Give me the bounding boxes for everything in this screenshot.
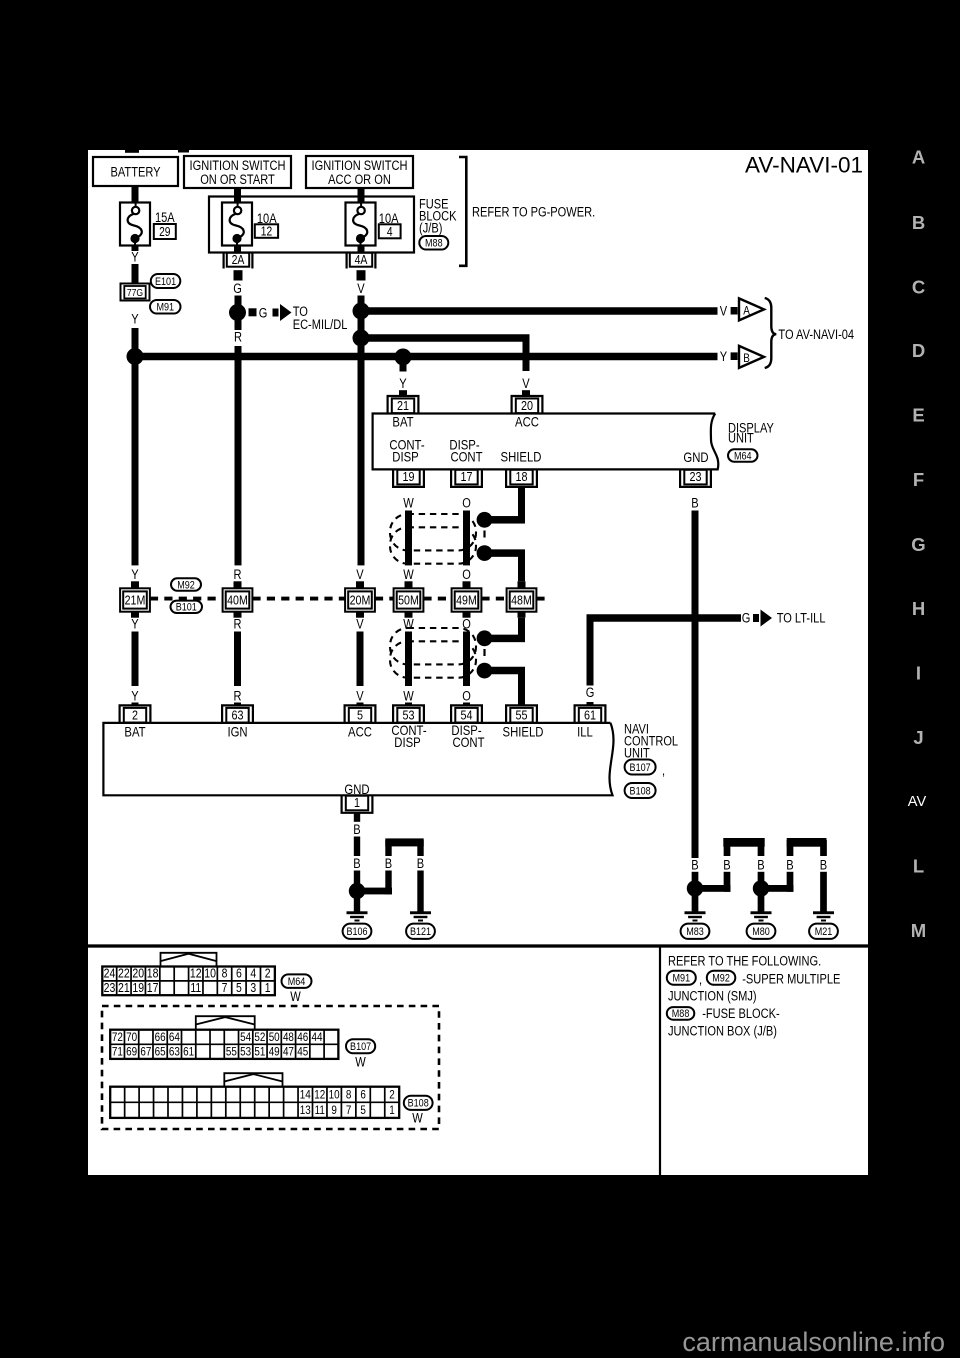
- svg-text:21: 21: [118, 980, 130, 995]
- svg-text:AV: AV: [908, 794, 927, 810]
- svg-text:M21: M21: [815, 926, 833, 938]
- svg-text:J: J: [913, 727, 923, 748]
- svg-text:M92: M92: [177, 579, 195, 591]
- svg-text:63: 63: [169, 1045, 180, 1059]
- svg-text:-FUSE BLOCK-: -FUSE BLOCK-: [702, 1006, 780, 1021]
- svg-text:Y: Y: [720, 349, 727, 364]
- svg-text:B: B: [786, 858, 793, 873]
- svg-text:B: B: [723, 858, 730, 873]
- svg-text:TO LT-ILL: TO LT-ILL: [777, 611, 826, 626]
- svg-text:5: 5: [357, 707, 363, 722]
- svg-text:B: B: [385, 856, 392, 871]
- svg-text:M64: M64: [288, 976, 306, 988]
- svg-text:O: O: [462, 689, 471, 704]
- svg-text:20: 20: [521, 398, 533, 413]
- svg-text:O: O: [462, 496, 471, 511]
- svg-text:6: 6: [236, 966, 242, 981]
- svg-text:G: G: [742, 611, 751, 626]
- svg-text:61: 61: [183, 1045, 194, 1059]
- svg-text:2: 2: [132, 707, 138, 722]
- svg-text:72: 72: [112, 1030, 123, 1044]
- svg-text:M92: M92: [712, 973, 730, 985]
- svg-text:B: B: [417, 856, 424, 871]
- svg-text:L: L: [913, 856, 924, 877]
- svg-text:18: 18: [516, 469, 528, 484]
- svg-text:AV-NAVI-01: AV-NAVI-01: [745, 153, 863, 178]
- svg-text:G: G: [911, 534, 925, 555]
- svg-text:B101: B101: [176, 602, 197, 614]
- svg-text:D: D: [912, 340, 925, 361]
- svg-text:B: B: [820, 858, 827, 873]
- svg-text:10: 10: [204, 966, 216, 981]
- svg-text:M80: M80: [752, 926, 770, 938]
- svg-text:B106: B106: [346, 926, 367, 938]
- svg-text:IGNITION SWITCH: IGNITION SWITCH: [190, 158, 286, 173]
- svg-text:71: 71: [112, 1045, 123, 1059]
- svg-text:63: 63: [232, 707, 244, 722]
- svg-text:DISP: DISP: [392, 450, 418, 465]
- svg-text:R: R: [234, 567, 242, 582]
- svg-text:52: 52: [254, 1030, 265, 1044]
- svg-text:I: I: [916, 663, 921, 684]
- svg-text:W: W: [403, 689, 414, 704]
- svg-text:UNIT: UNIT: [624, 746, 650, 761]
- svg-text:B: B: [757, 858, 764, 873]
- svg-text:51: 51: [254, 1045, 265, 1059]
- svg-text:ON OR START: ON OR START: [200, 172, 275, 187]
- svg-text:44: 44: [311, 1030, 322, 1044]
- svg-text:W: W: [403, 617, 414, 632]
- svg-text:V: V: [357, 281, 364, 296]
- svg-text:DISP: DISP: [394, 735, 420, 750]
- svg-text:,: ,: [699, 972, 702, 987]
- svg-text:23: 23: [104, 980, 116, 995]
- svg-text:UNIT: UNIT: [728, 431, 754, 446]
- svg-text:BATTERY: BATTERY: [111, 165, 161, 180]
- svg-text:R: R: [234, 330, 242, 345]
- svg-text:4A: 4A: [355, 252, 368, 267]
- svg-text:W: W: [355, 1055, 366, 1070]
- svg-text:67: 67: [140, 1045, 151, 1059]
- svg-text:1: 1: [354, 795, 360, 810]
- svg-text:2A: 2A: [232, 252, 245, 267]
- svg-text:W: W: [403, 567, 414, 582]
- svg-text:12: 12: [261, 225, 272, 239]
- svg-text:V: V: [522, 376, 529, 391]
- svg-text:W: W: [290, 989, 301, 1004]
- svg-text:M91: M91: [673, 973, 691, 985]
- svg-text:V: V: [356, 617, 363, 632]
- svg-text:12: 12: [190, 966, 202, 981]
- svg-text:70: 70: [126, 1030, 137, 1044]
- svg-text:46: 46: [297, 1030, 308, 1044]
- svg-text:77G: 77G: [127, 287, 143, 299]
- svg-text:JUNCTION (SMJ): JUNCTION (SMJ): [668, 989, 757, 1004]
- svg-text:R: R: [234, 617, 242, 632]
- svg-text:REFER TO PG-POWER.: REFER TO PG-POWER.: [472, 205, 595, 220]
- svg-text:CONT: CONT: [450, 450, 483, 465]
- svg-text:53: 53: [240, 1045, 251, 1059]
- svg-text:B121: B121: [410, 926, 431, 938]
- svg-text:C: C: [912, 277, 925, 298]
- svg-text:49M: 49M: [456, 593, 477, 608]
- svg-text:F: F: [913, 469, 924, 490]
- svg-text:4: 4: [250, 966, 256, 981]
- svg-text:M: M: [911, 920, 926, 941]
- svg-text:55: 55: [226, 1045, 237, 1059]
- svg-text:-SUPER MULTIPLE: -SUPER MULTIPLE: [742, 972, 840, 987]
- svg-text:V: V: [356, 689, 363, 704]
- svg-text:M88: M88: [672, 1008, 690, 1020]
- svg-text:4: 4: [387, 225, 393, 239]
- svg-text:GND: GND: [683, 450, 708, 465]
- svg-text:23: 23: [690, 469, 702, 484]
- svg-text:carmanualsonline.info: carmanualsonline.info: [682, 1327, 945, 1357]
- svg-text:B: B: [743, 351, 750, 365]
- svg-text:53: 53: [403, 707, 415, 722]
- svg-text:14: 14: [300, 1088, 311, 1102]
- svg-text:50: 50: [269, 1030, 280, 1044]
- svg-text:B107: B107: [630, 762, 651, 774]
- svg-text:G: G: [259, 306, 268, 321]
- svg-text:3: 3: [250, 980, 256, 995]
- svg-text:ACC OR ON: ACC OR ON: [328, 172, 391, 187]
- svg-text:8: 8: [222, 966, 228, 981]
- svg-text:Y: Y: [399, 376, 406, 391]
- svg-text:Y: Y: [131, 617, 138, 632]
- svg-text:5: 5: [360, 1103, 366, 1117]
- svg-text:A: A: [912, 146, 925, 167]
- svg-text:B108: B108: [630, 785, 651, 797]
- svg-text:M91: M91: [156, 302, 174, 314]
- svg-text:20M: 20M: [350, 593, 371, 608]
- svg-text:B: B: [912, 212, 925, 233]
- svg-text:18: 18: [147, 966, 159, 981]
- svg-text:M88: M88: [425, 238, 443, 250]
- svg-text:49: 49: [269, 1045, 280, 1059]
- svg-text:Y: Y: [131, 312, 138, 327]
- svg-text:R: R: [234, 689, 242, 704]
- svg-text:19: 19: [403, 469, 415, 484]
- svg-text:B107: B107: [350, 1041, 371, 1053]
- svg-text:BAT: BAT: [124, 725, 146, 740]
- svg-text:(J/B): (J/B): [419, 221, 442, 236]
- svg-text:48: 48: [283, 1030, 294, 1044]
- svg-text:ILL: ILL: [577, 725, 593, 740]
- svg-text:48M: 48M: [511, 593, 532, 608]
- svg-text:IGN: IGN: [227, 725, 247, 740]
- svg-text:1: 1: [265, 980, 271, 995]
- svg-text:ACC: ACC: [348, 725, 372, 740]
- svg-text:24: 24: [104, 966, 116, 981]
- svg-text:B: B: [353, 856, 360, 871]
- svg-text:45: 45: [297, 1045, 308, 1059]
- svg-text:JUNCTION BOX (J/B): JUNCTION BOX (J/B): [668, 1023, 777, 1038]
- svg-text:Y: Y: [131, 689, 138, 704]
- svg-text:B: B: [691, 858, 698, 873]
- svg-text:50M: 50M: [398, 593, 419, 608]
- svg-text:54: 54: [461, 707, 473, 722]
- svg-text:W: W: [403, 496, 414, 511]
- svg-text:IGNITION SWITCH: IGNITION SWITCH: [312, 158, 408, 173]
- svg-text:6: 6: [360, 1088, 366, 1102]
- svg-text:2: 2: [265, 966, 271, 981]
- svg-text:V: V: [356, 567, 363, 582]
- svg-text:22: 22: [118, 966, 130, 981]
- svg-text:13: 13: [300, 1103, 311, 1117]
- svg-text:20: 20: [132, 966, 144, 981]
- svg-text:8: 8: [346, 1088, 352, 1102]
- svg-text:E101: E101: [155, 276, 176, 288]
- svg-text:10: 10: [329, 1088, 340, 1102]
- svg-text:M64: M64: [734, 450, 752, 462]
- svg-text:W: W: [412, 1111, 423, 1126]
- svg-text:17: 17: [147, 980, 159, 995]
- svg-text:11: 11: [190, 980, 201, 995]
- svg-text:11: 11: [315, 1103, 325, 1117]
- svg-text:29: 29: [159, 225, 170, 239]
- svg-text:CONT: CONT: [452, 735, 485, 750]
- svg-text:,: ,: [662, 763, 665, 778]
- svg-text:54: 54: [240, 1030, 251, 1044]
- svg-text:V: V: [720, 303, 727, 318]
- svg-text:G: G: [586, 685, 595, 700]
- svg-text:5: 5: [236, 980, 242, 995]
- svg-text:A: A: [743, 304, 750, 318]
- svg-text:55: 55: [516, 707, 528, 722]
- svg-text:G: G: [233, 281, 242, 296]
- svg-text:40M: 40M: [227, 593, 248, 608]
- svg-text:12: 12: [314, 1088, 325, 1102]
- svg-text:Y: Y: [131, 250, 138, 265]
- svg-text:21M: 21M: [125, 593, 146, 608]
- svg-text:SHIELD: SHIELD: [501, 450, 542, 465]
- svg-text:7: 7: [346, 1103, 352, 1117]
- svg-text:2: 2: [389, 1088, 395, 1102]
- svg-text:BAT: BAT: [392, 415, 414, 430]
- svg-text:21: 21: [397, 398, 409, 413]
- svg-text:O: O: [462, 567, 471, 582]
- svg-text:TO AV-NAVI-04: TO AV-NAVI-04: [778, 327, 854, 342]
- svg-text:H: H: [912, 598, 925, 619]
- svg-text:B108: B108: [408, 1098, 429, 1110]
- svg-text:1: 1: [389, 1103, 395, 1117]
- svg-text:66: 66: [155, 1030, 166, 1044]
- svg-text:17: 17: [461, 469, 473, 484]
- svg-text:64: 64: [169, 1030, 180, 1044]
- svg-text:15A: 15A: [155, 210, 175, 225]
- svg-text:SHIELD: SHIELD: [503, 725, 544, 740]
- svg-text:REFER TO THE FOLLOWING.: REFER TO THE FOLLOWING.: [668, 954, 821, 969]
- svg-text:B: B: [691, 496, 698, 511]
- svg-text:19: 19: [132, 980, 144, 995]
- svg-text:9: 9: [331, 1103, 337, 1117]
- svg-text:ACC: ACC: [515, 415, 539, 430]
- svg-text:69: 69: [126, 1045, 137, 1059]
- svg-text:EC-MIL/DL: EC-MIL/DL: [293, 317, 348, 332]
- svg-text:47: 47: [283, 1045, 294, 1059]
- svg-text:E: E: [912, 405, 924, 426]
- svg-text:65: 65: [155, 1045, 166, 1059]
- svg-text:7: 7: [222, 980, 228, 995]
- svg-text:61: 61: [584, 707, 596, 722]
- svg-text:B: B: [353, 822, 360, 837]
- svg-text:Y: Y: [131, 567, 138, 582]
- svg-text:M83: M83: [686, 926, 704, 938]
